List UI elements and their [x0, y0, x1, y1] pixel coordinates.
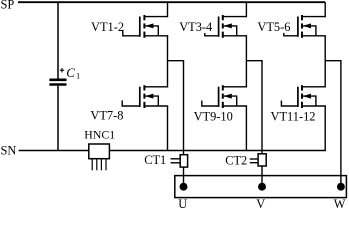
node U junction dot — [180, 183, 188, 191]
transistor VT11-12 (lower MOSFET leg 3) — [281, 85, 326, 108]
svg-text:U: U — [178, 197, 187, 209]
current sensor CT2 — [250, 154, 266, 166]
svg-text:VT11-12: VT11-12 — [271, 110, 316, 124]
node V junction dot — [258, 183, 266, 191]
svg-text:VT7-8: VT7-8 — [90, 109, 123, 123]
svg-text:VT3-4: VT3-4 — [179, 20, 212, 34]
transistor VT3-4 (upper MOSFET leg 2) — [205, 15, 247, 38]
wire SP to drain VT5-6 — [324, 2, 326, 17]
wire SP to drain VT3-4 — [245, 2, 247, 17]
wire midpoint leg 1 (source VT1-2 to drain VT7-8) — [167, 36, 169, 88]
wire source VT7-8 to SN — [167, 106, 169, 151]
svg-text:VT9-10: VT9-10 — [194, 110, 233, 124]
wire SN rail — [19, 150, 326, 152]
busbar output block U V W — [175, 176, 347, 198]
svg-text:C: C — [66, 65, 75, 80]
wire SP rail — [18, 1, 325, 3]
svg-text:CT1: CT1 — [144, 153, 166, 167]
current sensor CT1 — [171, 155, 188, 167]
svg-text:CT2: CT2 — [225, 153, 247, 167]
transistor VT7-8 (lower MOSFET leg 1) — [122, 85, 168, 108]
svg-text:VT1-2: VT1-2 — [91, 20, 124, 34]
wire midpoint leg 3 (source VT5-6 to drain VT11-12) — [324, 36, 326, 88]
hall current sensor HNC1 on SN rail — [89, 144, 110, 170]
wire SP to drain VT1-2 — [167, 2, 169, 17]
svg-text:SN: SN — [1, 143, 17, 157]
wire phase branch leg 3 to output — [325, 61, 341, 187]
svg-text:HNC1: HNC1 — [84, 127, 115, 141]
wire phase branch leg 2 to output — [246, 61, 262, 187]
svg-text:V: V — [256, 197, 265, 209]
capacitor C1 — [49, 2, 66, 150]
svg-text:VT5-6: VT5-6 — [257, 20, 290, 34]
svg-text:1: 1 — [76, 71, 80, 80]
wire source VT9-10 to SN — [245, 106, 247, 151]
transistor VT9-10 (lower MOSFET leg 2) — [202, 85, 247, 108]
svg-text:W: W — [334, 197, 346, 209]
transistor VT5-6 (upper MOSFET leg 3) — [284, 15, 326, 38]
transistor VT1-2 (upper MOSFET leg 1) — [123, 15, 168, 38]
wire source VT11-12 to SN — [324, 106, 326, 151]
wire midpoint leg 2 (source VT3-4 to drain VT9-10) — [245, 36, 247, 88]
node W junction dot — [337, 183, 345, 191]
wire phase branch leg 1 to output — [168, 61, 184, 187]
svg-text:SP: SP — [1, 0, 15, 12]
